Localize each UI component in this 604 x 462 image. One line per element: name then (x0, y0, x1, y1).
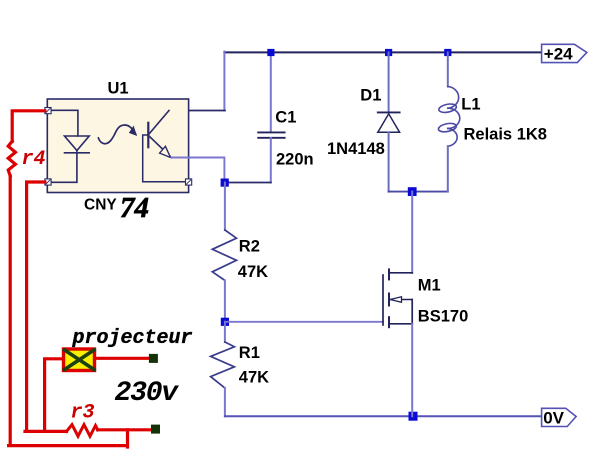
svg-text:C1: C1 (275, 109, 296, 127)
net flag 0V (542, 408, 577, 427)
op-amp U1 optocoupler body (47, 99, 188, 193)
svg-text:U1: U1 (108, 80, 129, 98)
node junction R2/R1/gate (221, 318, 229, 326)
wire L1 bottom (447, 146, 449, 191)
wire drain vertical (411, 192, 413, 273)
wire R1 to 0V rail (224, 388, 226, 416)
resistor R1 (211, 342, 235, 388)
svg-text:D1: D1 (360, 87, 381, 105)
wire red r3 to pad (98, 428, 151, 431)
pin U1 cathode (45, 179, 51, 185)
pin U1 anode (45, 108, 51, 114)
pin U1 base (186, 179, 192, 185)
resistor R2 (212, 230, 236, 280)
wire C1 bottom to junction (270, 138, 272, 183)
svg-text:r4: r4 (22, 148, 46, 171)
wire red lamp left lead (45, 359, 63, 432)
svg-text:+24: +24 (544, 45, 573, 64)
node junction emitter/C1/R2 (221, 179, 229, 187)
svg-text:47K: 47K (239, 369, 269, 387)
wire R2 to gate junction (224, 280, 226, 321)
wire D1 top (388, 52, 390, 112)
svg-text:R2: R2 (239, 237, 260, 255)
wire gate lead (225, 321, 383, 323)
diode D1 (378, 112, 400, 132)
wire +24 top rail (224, 51, 541, 53)
wire source vertical to 0V (411, 324, 413, 416)
wire L1 top (447, 52, 449, 86)
wire D1-L1 bottom link (389, 191, 448, 193)
capacitor C1 branch wire upper (270, 52, 272, 132)
svg-text:CNY: CNY (84, 197, 117, 214)
capacitor C1 (258, 132, 284, 137)
transistor M1 MOSFET (383, 269, 412, 327)
inductor L1 coil (438, 87, 460, 147)
svg-text:220n: 220n (276, 151, 314, 169)
wire junction down to R2 (224, 183, 226, 231)
transistor phototransistor inside U1 (143, 111, 186, 182)
svg-text:projecteur: projecteur (72, 327, 193, 350)
wire D1 bottom (388, 132, 390, 191)
svg-text:r3: r3 (71, 402, 95, 425)
svg-text:0V: 0V (543, 409, 564, 428)
resistor r3 (67, 425, 98, 437)
diode LED inside U1 (48, 110, 89, 182)
wire red lamp right lead to pad (96, 357, 149, 360)
svg-text:M1: M1 (418, 276, 441, 294)
wire junction to R1 (224, 322, 226, 342)
wire collector to left vertical (169, 110, 225, 112)
net flag +24 (542, 44, 587, 63)
pad terminal r3 (151, 425, 160, 434)
lamp projecteur (64, 349, 95, 371)
wire light arrow squiggle inside U1 (98, 125, 136, 144)
svg-text:R1: R1 (239, 344, 260, 362)
svg-text:Relais 1K8: Relais 1K8 (464, 126, 547, 144)
svg-text:47K: 47K (238, 263, 268, 281)
wire C1 bottom horizontal (225, 182, 271, 184)
node junction rail L1 (444, 49, 451, 56)
wire red opto pin2 branch down to r3 left (25, 182, 67, 431)
wire red r4 branch: opto pin1 left, down, through r4, to bottom, right, up to r3 out (8, 111, 127, 447)
pad terminal lamp (149, 354, 158, 363)
node junction 0V source (409, 412, 418, 421)
svg-text:1N4148: 1N4148 (327, 140, 385, 158)
svg-text:74: 74 (120, 192, 149, 224)
svg-text:BS170: BS170 (418, 308, 468, 326)
node junction rail D1 (385, 49, 392, 56)
node junction rail C1 (267, 49, 274, 56)
wire emitter to junction (171, 158, 224, 183)
node junction drain (408, 187, 417, 196)
svg-text:230v: 230v (115, 378, 180, 409)
wire left branch vertical from rail to opto collector (223, 52, 225, 111)
wire 0V rail (225, 415, 542, 417)
svg-text:L1: L1 (461, 96, 480, 114)
